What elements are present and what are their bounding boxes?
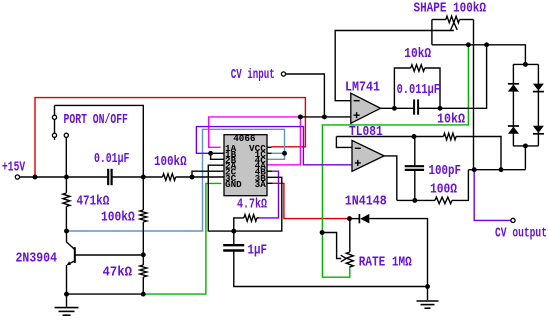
svg-text:100kΩ: 100kΩ [101,209,135,224]
svg-text:RATE 1MΩ: RATE 1MΩ [359,255,413,270]
svg-text:100kΩ: 100kΩ [154,154,187,169]
svg-text:SHAPE 100kΩ: SHAPE 100kΩ [414,1,487,16]
svg-text:GND: GND [225,179,242,190]
svg-text:4.7kΩ: 4.7kΩ [237,196,267,212]
svg-text:LM741: LM741 [345,80,380,95]
svg-text:100Ω: 100Ω [430,181,457,196]
svg-text:CV input: CV input [231,67,275,82]
svg-text:3A: 3A [255,179,267,190]
svg-text:PORT ON/OFF: PORT ON/OFF [64,112,128,128]
svg-text:10kΩ: 10kΩ [404,46,431,61]
svg-text:TL081: TL081 [349,124,383,139]
svg-text:100pF: 100pF [429,163,461,178]
svg-text:1N4148: 1N4148 [345,194,387,209]
svg-text:0.01µF: 0.01µF [94,151,129,167]
svg-text:47kΩ: 47kΩ [103,264,133,280]
svg-text:471kΩ: 471kΩ [77,193,110,208]
svg-text:+15V: +15V [2,159,26,175]
svg-text:0.011µF: 0.011µF [397,82,440,98]
svg-text:CV output: CV output [495,225,547,241]
svg-text:1µF: 1µF [248,242,267,257]
svg-text:2N3904: 2N3904 [16,251,58,266]
svg-text:10kΩ: 10kΩ [437,112,465,127]
